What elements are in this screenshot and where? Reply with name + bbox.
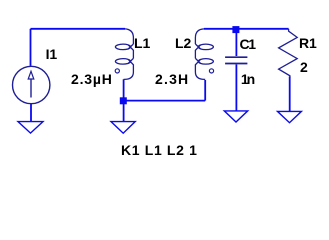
label L1 <box>134 38 150 48</box>
L2 phase dot <box>209 69 213 73</box>
wire L2 bottom lead <box>204 80 206 101</box>
label C1 <box>240 39 255 49</box>
wire junction to ground G2 <box>123 101 125 122</box>
current source I1 circle <box>13 66 50 103</box>
current source I1 arrow <box>30 79 32 98</box>
wire I1 bottom to ground <box>30 104 32 122</box>
value 2.3µH <box>71 74 113 84</box>
capacitor C1 plates <box>225 56 247 58</box>
label R1 <box>299 38 317 48</box>
spice directive K1 L1 L2 1 <box>121 145 198 155</box>
ground G1 under I1 <box>18 122 43 134</box>
junction node at C1 top <box>232 26 239 33</box>
wire top-left vertical from I1 to corner <box>30 29 32 66</box>
wire bottom link junction to L2 bottom <box>124 100 206 102</box>
wire R1 bottom to ground <box>289 77 291 112</box>
wire C1 top lead <box>235 29 237 56</box>
value 2 <box>300 62 308 72</box>
wire top horizontal to L1 <box>31 28 126 30</box>
junction node at L1 bottom <box>120 97 127 104</box>
ground G4 under R1 <box>278 111 302 122</box>
value 1n <box>241 74 253 84</box>
ground G2 under junction <box>111 122 135 134</box>
L1 phase dot <box>115 69 119 73</box>
resistor R1 zigzag <box>279 29 298 78</box>
inductor L2 (mirror of L1 about x=164.4) <box>195 29 213 80</box>
label I1 <box>46 49 57 59</box>
value 2.3H <box>155 74 189 84</box>
ground G3 under C1 <box>224 111 247 122</box>
label L2 <box>175 38 191 48</box>
wire top right horizontal L2 to R1 <box>204 28 289 30</box>
inductor L1 <box>115 29 133 80</box>
wire L1 bottom to junction <box>123 79 125 100</box>
wire C1 bottom lead to ground <box>235 65 237 111</box>
